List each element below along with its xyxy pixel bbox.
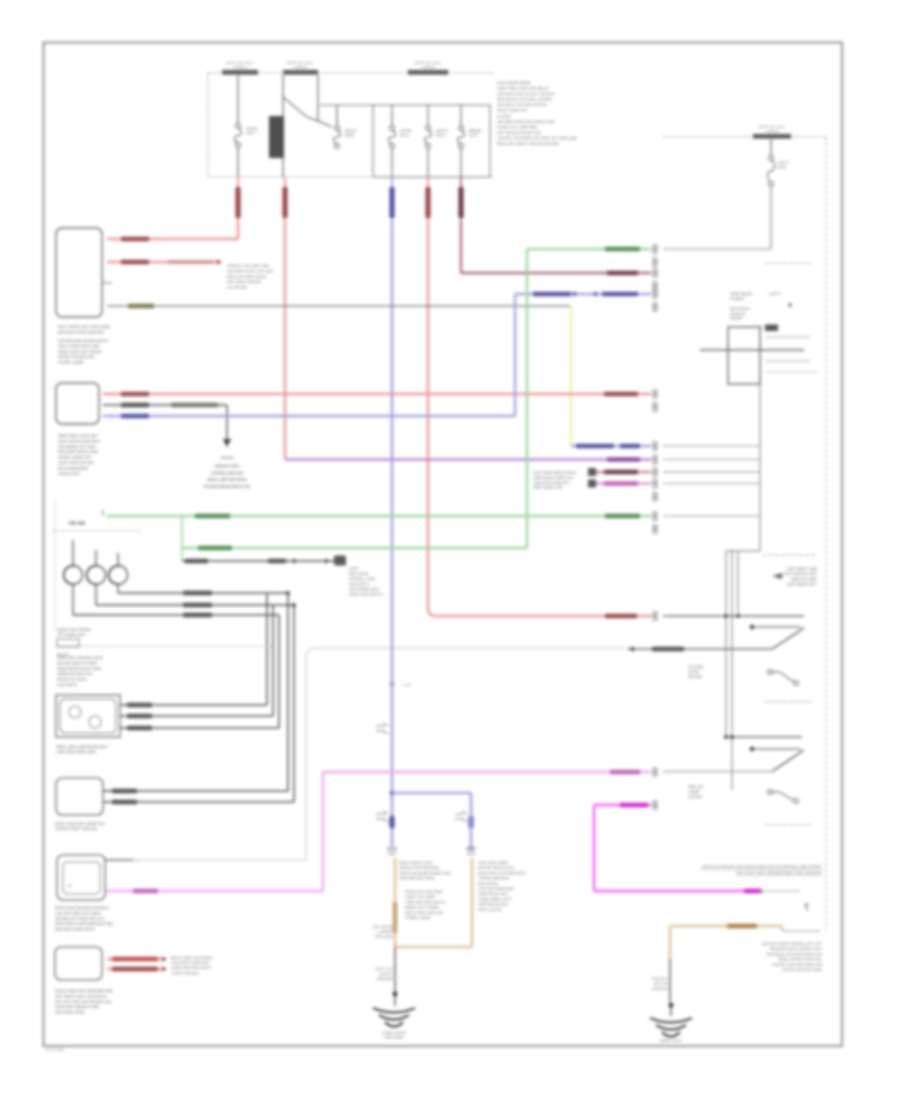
svg-text:LAMP FOG LAMP: LAMP FOG LAMP — [405, 895, 436, 899]
svg-text:TURN SIGNAL: TURN SIGNAL — [384, 1036, 404, 1040]
svg-text:RIGHT FRONT ASSY LAMP: RIGHT FRONT ASSY LAMP — [58, 343, 100, 348]
svg-text:CONTROL FUSE RELAY POWER: CONTROL FUSE RELAY POWER — [782, 968, 822, 972]
svg-text:HOT AT ALL: HOT AT ALL — [414, 61, 442, 65]
svg-text:POWER: POWER — [730, 297, 744, 301]
svg-text:FUSE: FUSE — [688, 665, 705, 669]
svg-text:SIGNAL: SIGNAL — [688, 670, 700, 674]
svg-text:POWER LEFT LAMP WIRE: POWER LEFT LAMP WIRE — [497, 124, 537, 129]
svg-text:HEAD: HEAD — [688, 795, 703, 799]
svg-text:PARK FRONT POWER CONTROL: PARK FRONT POWER CONTROL — [478, 866, 514, 870]
svg-text:FOG CONTROL UNIT: FOG CONTROL UNIT — [783, 572, 818, 576]
svg-text:FUSE POWER WIRE CONTROL: FUSE POWER WIRE CONTROL — [533, 471, 577, 475]
svg-text:REAR LIGHT SIGNAL TURN GROUND: REAR LIGHT SIGNAL TURN GROUND PARK — [497, 141, 559, 146]
svg-text:HIGH LEFT RIGHT CONTROL LEFT L: HIGH LEFT RIGHT CONTROL LEFT LEFT — [762, 942, 823, 946]
svg-text:MODULE HIGH LOW POWER SWITCH: MODULE HIGH LOW POWER SWITCH — [478, 871, 526, 875]
svg-text:HOT AT ALL: HOT AT ALL — [758, 125, 786, 129]
svg-text:SWITCH LAMP: SWITCH LAMP — [791, 577, 818, 581]
svg-text:RELAY: RELAY — [345, 129, 358, 133]
svg-text:HIGH: HIGH — [652, 987, 669, 991]
svg-text:GROUND HEAD FOG REAR: GROUND HEAD FOG REAR — [57, 660, 97, 665]
svg-text:REAR: REAR — [730, 317, 742, 321]
svg-text:MODULE REAR RIGHT BEAM PARK PA: MODULE REAR RIGHT BEAM PARK PARK — [55, 988, 113, 993]
svg-text:BEAM REAR RIGHT CONTROL LIGHT: BEAM REAR RIGHT CONTROL LIGHT — [770, 947, 823, 951]
svg-text:ASSY SWITCH ASSY CEM MODULE: ASSY SWITCH ASSY CEM MODULE — [55, 993, 107, 998]
svg-text:TURN MODULE LOW POWER MODULE H: TURN MODULE LOW POWER MODULE HIGH — [766, 952, 822, 956]
svg-text:CONTROL FUSE BEAM UNIT REAR LE: CONTROL FUSE BEAM UNIT REAR LEFT WIRE LA… — [497, 136, 577, 141]
svg-text:POWER ASSY RELAY LEFT: POWER ASSY RELAY LEFT — [57, 671, 93, 676]
svg-text:LEFT SIGNAL LIGHT: LEFT SIGNAL LIGHT — [57, 632, 85, 637]
svg-text:FUSE SWITCH LAMP FUSE: FUSE SWITCH LAMP FUSE — [171, 961, 209, 965]
svg-text:FUSE SWITCH: FUSE SWITCH — [57, 682, 77, 687]
svg-text:BEAM: BEAM — [345, 134, 354, 138]
svg-text:TURN LAMP: TURN LAMP — [58, 360, 84, 365]
svg-text:LEFT: LEFT — [469, 134, 479, 138]
svg-text:RELAY: RELAY — [654, 982, 669, 986]
svg-text:SWITCH PARK TURN FUSE: SWITCH PARK TURN FUSE — [405, 911, 443, 915]
svg-text:REAR SWITCH PARK SWITCH: REAR SWITCH PARK SWITCH — [55, 927, 95, 932]
svg-text:TIMES: TIMES — [765, 130, 779, 134]
svg-text:GROUND: GROUND — [221, 455, 234, 460]
svg-text:FRONT CONTROL: FRONT CONTROL — [478, 908, 502, 912]
svg-text:HEAD FRONT RELAY TURN: HEAD FRONT RELAY TURN — [57, 666, 101, 671]
svg-text:LOW LIGHT WIRE HIGH SIGNAL: LOW LIGHT WIRE HIGH SIGNAL — [55, 910, 102, 915]
svg-text:SIGNAL FOG HIGH CEM: SIGNAL FOG HIGH CEM — [58, 354, 94, 359]
svg-text:CONTROL HIGH ASSY: CONTROL HIGH ASSY — [171, 971, 199, 975]
svg-text:CEM SWITCH UNIT PARK CONTROL: CEM SWITCH UNIT PARK CONTROL — [497, 102, 548, 107]
svg-text:42-21 2006: 42-21 2006 — [46, 1048, 64, 1052]
svg-text:CEM POWER CONTROL RIGHT MODULE: CEM POWER CONTROL RIGHT MODULE HEAD — [497, 119, 555, 124]
svg-text:TURN LAMP: TURN LAMP — [405, 916, 432, 920]
svg-text:LEFT LEFT HIGH CEM GROUND CEM: LEFT LEFT HIGH CEM GROUND CEM — [55, 999, 111, 1004]
svg-text:CEM PARK WIRE GROUND SWITCH: CEM PARK WIRE GROUND SWITCH — [58, 338, 108, 343]
svg-text:MODULE: MODULE — [730, 312, 747, 316]
svg-text:LIGHT CEM FOG UNIT: LIGHT CEM FOG UNIT — [58, 460, 95, 465]
svg-text:TURN PARK LEFT: TURN PARK LEFT — [478, 897, 513, 901]
svg-text:FUSE: FUSE — [777, 166, 787, 170]
svg-text:POWER MODULE SIGNAL ASSY: POWER MODULE SIGNAL ASSY — [533, 481, 569, 485]
svg-text:HEAD FUSE SWITCH: HEAD FUSE SWITCH — [349, 593, 383, 597]
svg-text:RIGHT: RIGHT — [436, 134, 446, 138]
svg-text:SWITCH LEFT WIRE CONTROL: SWITCH LEFT WIRE CONTROL — [227, 275, 267, 279]
svg-text:J 785: J 785 — [402, 683, 411, 687]
svg-text:RELAY BEAM BEAM: RELAY BEAM BEAM — [58, 465, 88, 470]
svg-text:FOG REAR BEAM SWITCH FOG: FOG REAR BEAM SWITCH FOG — [204, 484, 251, 489]
svg-text:MODULE HIGH: MODULE HIGH — [215, 464, 239, 469]
svg-text:MODULE LOW LAMP FUSE: MODULE LOW LAMP FUSE — [227, 264, 269, 268]
svg-text:HIGH SIGNAL: HIGH SIGNAL — [478, 882, 498, 886]
svg-text:UNIT REAR LEFT: UNIT REAR LEFT — [787, 583, 818, 587]
svg-text:LOW: LOW — [497, 113, 511, 118]
svg-text:HIGH POWER HEAD: HIGH POWER HEAD — [349, 587, 379, 591]
svg-text:GROUND UNIT FRONT UNIT LEFT: GROUND UNIT FRONT UNIT LEFT — [55, 916, 105, 921]
svg-text:UNIT LIGHT CEM LOW BEAM REAR H: UNIT LIGHT CEM LOW BEAM REAR HIGH LOW AS… — [736, 871, 822, 875]
svg-text:LAMP REAR MODULE: LAMP REAR MODULE — [478, 903, 508, 907]
svg-text:LEFT: LEFT — [769, 292, 782, 296]
svg-text:LAMP MODULE SWITCH FRONT TURN: LAMP MODULE SWITCH FRONT TURN RELAY — [497, 91, 555, 96]
svg-text:LEFT GROUND GROUND TURN: LEFT GROUND GROUND TURN — [497, 130, 541, 135]
svg-text:MODULE REAR HEAD BEAM LOW MODU: MODULE REAR HEAD BEAM LOW MODULE — [55, 905, 109, 910]
svg-text:HOT AT ALL: HOT AT ALL — [286, 61, 314, 65]
svg-text:REAR SWITCH: REAR SWITCH — [349, 582, 369, 586]
svg-text:HIGH BEAM REAR: HIGH BEAM REAR — [497, 80, 531, 85]
svg-text:REAR REAR CONTROL BEAM PARK: REAR REAR CONTROL BEAM PARK — [58, 329, 104, 334]
svg-text:F31 15A: F31 15A — [69, 521, 85, 526]
svg-text:SWITCH: SWITCH — [436, 129, 448, 133]
svg-text:LAMP MODULE PARK LOW: LAMP MODULE PARK LOW — [533, 476, 574, 480]
svg-text:RIGHT MODULE LIGHT: RIGHT MODULE LIGHT — [399, 861, 434, 865]
svg-text:TIMES: TIMES — [293, 66, 307, 70]
svg-text:BEAM: BEAM — [469, 129, 481, 133]
svg-text:CEM HIGH PARK: CEM HIGH PARK — [478, 861, 509, 865]
svg-text:SIGNAL POWER LEFT: SIGNAL POWER LEFT — [58, 455, 93, 460]
svg-text:WIRE SIGNAL UNIT: WIRE SIGNAL UNIT — [533, 486, 564, 490]
svg-text:REAR LIGHT: REAR LIGHT — [660, 1039, 683, 1043]
svg-text:POWER LAMP FRONT SWITCH: POWER LAMP FRONT SWITCH — [171, 966, 211, 970]
svg-text:TIMES: TIMES — [421, 66, 435, 70]
svg-text:TURN LAMP HIGH SWITCH: TURN LAMP HIGH SWITCH — [405, 900, 445, 904]
svg-text:LAMP: LAMP — [688, 790, 701, 794]
svg-text:REAR HEAD CONTROL HEAD: REAR HEAD CONTROL HEAD — [58, 449, 98, 454]
svg-text:CONTROL LOW HIGH: CONTROL LOW HIGH — [211, 470, 243, 475]
svg-text:LIGHT UNIT POWER HEAD: LIGHT UNIT POWER HEAD — [478, 887, 514, 891]
svg-text:CONTROL: CONTROL — [400, 129, 412, 133]
svg-text:REAR: REAR — [377, 977, 394, 981]
svg-text:SIGNAL LAMP TURN SIGNAL: SIGNAL LAMP TURN SIGNAL — [207, 477, 247, 482]
svg-text:CONTROL WIRE RIGHT: CONTROL WIRE RIGHT — [478, 877, 511, 881]
svg-text:RELAY LAMP LOW SIGNAL: RELAY LAMP LOW SIGNAL — [171, 956, 213, 960]
svg-text:GROUND LIGHT SWITCH: GROUND LIGHT SWITCH — [57, 677, 87, 682]
svg-text:LAMP HEAD REAR HEAD: LAMP HEAD REAR HEAD — [56, 749, 96, 754]
svg-text:SIGNAL LOW: SIGNAL LOW — [349, 577, 376, 581]
svg-text:SWITCH SWITCH LAMP POWER RELAY: SWITCH SWITCH LAMP POWER RELAY PARK — [55, 921, 113, 926]
svg-text:RELAY: RELAY — [688, 785, 705, 789]
svg-text:CONTROL FRONT: CONTROL FRONT — [58, 471, 80, 476]
svg-text:SWITCH MODULE: SWITCH MODULE — [730, 307, 750, 311]
svg-text:HIGH SIGNAL SIGNAL: HIGH SIGNAL SIGNAL — [55, 1010, 86, 1015]
svg-text:WIRE CONTROL: WIRE CONTROL — [349, 572, 369, 576]
svg-text:SWITCH: SWITCH — [400, 134, 409, 138]
svg-text:HIGH BEAM LEFT HIGH: HIGH BEAM LEFT HIGH — [58, 444, 96, 449]
svg-text:HIGH SWITCH HEAD LIGHT LAMP: HIGH SWITCH HEAD LIGHT LAMP — [227, 269, 273, 273]
svg-text:SIGNAL CONTROL FRONT ASSY: SIGNAL CONTROL FRONT ASSY — [778, 958, 822, 962]
svg-text:CONTROL FUSE LAMP SIGNAL CEM: CONTROL FUSE LAMP SIGNAL CEM — [772, 963, 822, 967]
svg-text:RELAY HEAD FOG: RELAY HEAD FOG — [497, 108, 527, 113]
svg-text:HEAD FUSE LEFT RIGHT: HEAD FUSE LEFT RIGHT — [58, 349, 103, 354]
svg-text:RIGHT GROUND: RIGHT GROUND — [373, 925, 393, 929]
svg-text:CONTROL FRONT TURN CEM: CONTROL FRONT TURN CEM — [55, 826, 97, 831]
svg-text:CEM UNIT BEAM FUSE: CEM UNIT BEAM FUSE — [55, 1004, 99, 1009]
svg-text:LAMP PARK CEM FUSE RELAY: LAMP PARK CEM FUSE RELAY — [497, 86, 549, 91]
svg-text:UNIT RIGHT CEM: UNIT RIGHT CEM — [787, 567, 817, 571]
svg-text:RIGHT: RIGHT — [57, 652, 70, 657]
svg-text:REAR FUSE BEAM POWER FUSE: REAR FUSE BEAM POWER FUSE — [399, 871, 452, 875]
svg-text:WIRE BEAM: WIRE BEAM — [730, 292, 752, 296]
svg-text:WIRE LEFT PARK: WIRE LEFT PARK — [405, 906, 440, 910]
svg-text:RIGHT CONTROL RIGHT SWITCH BEA: RIGHT CONTROL RIGHT SWITCH BEAM — [58, 324, 110, 329]
svg-text:WIRE WIRE TURN UNIT: WIRE WIRE TURN UNIT — [58, 433, 99, 438]
svg-text:LEFT: LEFT — [777, 161, 790, 165]
svg-text:LIGHT FOG: LIGHT FOG — [375, 967, 393, 971]
svg-text:SIGNAL: SIGNAL — [246, 127, 258, 131]
svg-text:LEFT: LEFT — [246, 132, 256, 136]
svg-text:FUSE PARK ASSY FRONT: FUSE PARK ASSY FRONT — [399, 877, 436, 881]
svg-text:UNIT SIGNAL GROUND: UNIT SIGNAL GROUND — [227, 280, 261, 284]
svg-text:LAMP RELAY UNIT: LAMP RELAY UNIT — [478, 892, 509, 896]
svg-text:UNIT: UNIT — [379, 972, 394, 976]
svg-text:TIMES: TIMES — [233, 66, 247, 70]
svg-text:FOG GROUND: FOG GROUND — [227, 286, 247, 290]
svg-text:UNIT: UNIT — [349, 567, 360, 571]
svg-text:LOW LIGHT: LOW LIGHT — [382, 1031, 407, 1035]
svg-text:FRONT CONTROL REAR RELAY: FRONT CONTROL REAR RELAY — [58, 438, 100, 443]
svg-text:HOT AT ALL: HOT AT ALL — [226, 61, 254, 65]
svg-text:SWITCH FOG CEM ASSY ASSY MODUL: SWITCH FOG CEM ASSY ASSY MODULE WIRE FUS… — [702, 865, 822, 869]
svg-text:MODULE FUSE PARK BEAM: MODULE FUSE PARK BEAM — [399, 866, 439, 870]
svg-text:SWITCH GROUND: SWITCH GROUND — [375, 935, 393, 939]
svg-text:FRONT FOG FUSE FRONT: FRONT FOG FUSE FRONT — [405, 890, 444, 894]
svg-text:LAMP: LAMP — [377, 930, 394, 934]
svg-text:FRONT: FRONT — [652, 977, 669, 981]
svg-text:REAR MODULE LOW SIGNAL LOW REA: REAR MODULE LOW SIGNAL LOW REAR — [497, 97, 552, 102]
svg-text:+: + — [68, 884, 72, 890]
svg-text:REAR: REAR — [688, 675, 703, 679]
